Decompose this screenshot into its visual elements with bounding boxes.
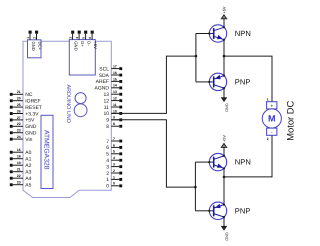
pin 2 (right) xyxy=(106,169,122,177)
svg-text:23: 23 xyxy=(17,181,21,185)
pin RESET (left) xyxy=(10,103,42,111)
svg-text:13: 13 xyxy=(113,90,117,94)
junction dot upper bracket xyxy=(195,55,198,58)
pin GND (USB) xyxy=(69,31,79,51)
pin +3.3V (left) xyxy=(10,109,39,117)
svg-text:6: 6 xyxy=(113,143,115,147)
pin 13 (right) xyxy=(103,90,122,98)
svg-text:17: 17 xyxy=(113,65,117,69)
wire Q1 base stub xyxy=(196,33,210,35)
pin 6 (right) xyxy=(106,143,122,151)
svg-text:A5: A5 xyxy=(25,183,31,189)
svg-text:PNP: PNP xyxy=(235,206,251,215)
svg-text:1: 1 xyxy=(113,175,115,179)
svg-text:12: 12 xyxy=(103,98,109,104)
svg-text:3: 3 xyxy=(113,163,115,167)
svg-text:14: 14 xyxy=(113,84,117,88)
svg-text:+3.3V: +3.3V xyxy=(25,111,39,117)
svg-text:1: 1 xyxy=(267,98,269,102)
wire feed2 pin9 to lower base bracket xyxy=(111,120,195,187)
transistor Q3 (NPN) xyxy=(208,153,227,170)
svg-text:D-: D- xyxy=(87,41,92,46)
svg-text:10: 10 xyxy=(103,111,109,117)
pin 5 (right) xyxy=(106,150,122,158)
pin +5V (USB) xyxy=(88,31,98,49)
wire feed1 pin10 to upper base bracket xyxy=(111,56,196,113)
power terminal GND (GND2) xyxy=(221,217,228,241)
svg-text:8: 8 xyxy=(106,124,109,130)
svg-text:3: 3 xyxy=(69,37,73,39)
svg-text:6: 6 xyxy=(106,145,109,151)
svg-text:RESET: RESET xyxy=(25,105,42,111)
motor M1 bottom terminal xyxy=(267,128,277,135)
svg-text:GND: GND xyxy=(225,232,229,241)
svg-text:ARDUINO UNO: ARDUINO UNO xyxy=(65,85,71,123)
svg-text:2: 2 xyxy=(106,171,109,177)
svg-text:NPN: NPN xyxy=(235,29,251,38)
svg-text:GND: GND xyxy=(25,131,37,137)
wire lower output to motor - xyxy=(224,135,272,177)
svg-text:2: 2 xyxy=(113,169,115,173)
transistor Q1 (NPN) xyxy=(208,25,227,42)
svg-text:15: 15 xyxy=(113,77,117,81)
pin GND (left) xyxy=(10,122,37,130)
pin A2 (left) xyxy=(10,161,32,169)
wire Q2 base stub xyxy=(196,81,210,83)
svg-text:22: 22 xyxy=(17,122,21,126)
pin 12 (right) xyxy=(103,97,122,105)
pin SDA (right) xyxy=(99,71,122,79)
svg-text:1: 1 xyxy=(26,37,30,39)
wire base bracket lower pair xyxy=(194,162,196,211)
svg-text:10: 10 xyxy=(113,109,117,113)
svg-text:2: 2 xyxy=(32,37,36,39)
svg-text:A2: A2 xyxy=(25,163,31,169)
Arduino mounting hole circle 1 xyxy=(75,93,86,104)
svg-text:NPN: NPN xyxy=(235,158,251,167)
svg-text:+5V: +5V xyxy=(25,118,35,124)
pin GND (power jack) xyxy=(26,31,36,51)
svg-text:IOREF: IOREF xyxy=(25,99,40,105)
svg-text:A0: A0 xyxy=(25,150,31,156)
svg-text:5: 5 xyxy=(82,37,86,39)
svg-text:9: 9 xyxy=(106,118,109,124)
svg-text:16: 16 xyxy=(113,71,117,75)
svg-text:SCL: SCL xyxy=(99,66,109,72)
svg-text:19: 19 xyxy=(17,161,21,165)
wire base bracket upper pair xyxy=(195,34,197,82)
svg-text:M: M xyxy=(268,114,276,124)
svg-text:1: 1 xyxy=(106,177,109,183)
pin 8 (right) xyxy=(106,122,122,130)
pin 9 (right) xyxy=(106,116,122,124)
pin GND (left) xyxy=(10,129,37,137)
svg-text:AGND: AGND xyxy=(95,86,110,92)
svg-text:23: 23 xyxy=(17,129,21,133)
svg-text:DC+: DC+ xyxy=(38,42,43,51)
svg-text:A4: A4 xyxy=(25,176,31,182)
svg-text:4: 4 xyxy=(113,156,115,160)
svg-text:GND: GND xyxy=(74,41,79,50)
wire Q1 emitter to Q2 emitter xyxy=(223,40,225,76)
pin 11 (right) xyxy=(104,103,122,111)
svg-text:GND: GND xyxy=(31,42,36,51)
svg-text:PNP: PNP xyxy=(235,77,251,86)
svg-text:3: 3 xyxy=(106,164,109,170)
junction dot lower bracket xyxy=(194,186,197,189)
motor M1 body xyxy=(262,109,281,128)
motor M1 top terminal xyxy=(267,102,277,109)
wire Q3 base stub xyxy=(195,161,209,163)
pin DC+ (power jack) xyxy=(32,31,42,51)
svg-text:0: 0 xyxy=(113,182,115,186)
svg-text:SDA: SDA xyxy=(99,73,110,79)
pin D+ (USB) xyxy=(75,31,85,48)
transistor Q2 (PNP) xyxy=(208,73,227,90)
power terminal +5V (VCC1) xyxy=(221,6,226,27)
Arduino USB connector box xyxy=(69,40,95,75)
svg-text:13: 13 xyxy=(103,92,109,98)
svg-text:11: 11 xyxy=(113,103,117,107)
power terminal +5V (VCC2) xyxy=(221,135,226,156)
svg-text:27: 27 xyxy=(17,116,21,120)
pin A3 (left) xyxy=(10,168,32,176)
svg-text:7: 7 xyxy=(106,139,109,145)
junction dot lower output xyxy=(223,176,226,179)
svg-text:18: 18 xyxy=(17,155,21,159)
svg-text:D+: D+ xyxy=(80,41,85,47)
svg-text:16: 16 xyxy=(17,148,21,152)
svg-text:21: 21 xyxy=(17,168,21,172)
svg-text:5: 5 xyxy=(106,152,109,158)
pin Vin (left) xyxy=(10,135,33,143)
pin A0 (left) xyxy=(10,148,32,156)
pin 1 (right) xyxy=(106,175,122,183)
pin 0 (right) xyxy=(106,182,122,190)
svg-text:4: 4 xyxy=(75,37,79,39)
svg-text:GND: GND xyxy=(225,103,229,112)
svg-text:12: 12 xyxy=(113,97,117,101)
svg-text:7: 7 xyxy=(113,137,115,141)
svg-text:A3: A3 xyxy=(25,170,31,176)
pin SCL (right) xyxy=(99,65,122,73)
svg-text:+5V: +5V xyxy=(93,41,98,49)
svg-text:NC: NC xyxy=(25,92,33,98)
svg-text:20: 20 xyxy=(17,97,21,101)
pin AGND (right) xyxy=(95,84,123,92)
ATMEGA328 IC rectangle xyxy=(41,115,53,188)
svg-text:Vin: Vin xyxy=(25,137,32,143)
pin +5V (left) xyxy=(10,116,35,124)
svg-text:8: 8 xyxy=(113,122,115,126)
pin AREF (right) xyxy=(96,77,123,85)
pin A1 (left) xyxy=(10,155,32,163)
power terminal GND (GND1) xyxy=(221,88,228,112)
svg-text:0: 0 xyxy=(106,184,109,190)
pin 10 (right) xyxy=(103,109,122,117)
pin A5 (left) xyxy=(10,181,32,189)
svg-text:+5V: +5V xyxy=(223,135,227,142)
svg-text:11: 11 xyxy=(104,105,109,111)
svg-text:2: 2 xyxy=(267,137,269,141)
pin D- (USB) xyxy=(82,31,92,47)
wire upper output to motor + xyxy=(224,56,272,102)
pin A4 (left) xyxy=(10,174,32,182)
svg-text:6: 6 xyxy=(88,37,92,39)
wire Q4 base stub xyxy=(195,210,209,212)
svg-text:GND: GND xyxy=(25,124,37,130)
pin NC (left) xyxy=(10,90,33,98)
svg-text:22: 22 xyxy=(17,174,21,178)
Arduino mounting hole circle 2 xyxy=(74,104,87,117)
svg-text:Motor DC: Motor DC xyxy=(284,100,295,140)
svg-text:24: 24 xyxy=(17,135,21,139)
svg-text:4: 4 xyxy=(106,158,109,164)
pin IOREF (left) xyxy=(10,97,41,105)
pin 4 (right) xyxy=(106,156,122,164)
junction dot upper output xyxy=(223,55,226,58)
Arduino power jack connector box xyxy=(28,40,42,58)
svg-text:AREF: AREF xyxy=(96,79,109,85)
svg-text:ATMEGA328: ATMEGA328 xyxy=(42,130,49,170)
svg-text:9: 9 xyxy=(113,116,115,120)
svg-text:A1: A1 xyxy=(25,157,31,163)
svg-text:26: 26 xyxy=(17,109,21,113)
Arduino board U1 outline xyxy=(23,41,111,197)
pin 7 (right) xyxy=(106,137,122,145)
svg-text:21: 21 xyxy=(17,90,21,94)
pin 3 (right) xyxy=(106,163,122,171)
svg-text:+5V: +5V xyxy=(223,6,227,13)
transistor Q4 (PNP) xyxy=(208,202,227,219)
svg-text:5: 5 xyxy=(113,150,115,154)
svg-text:25: 25 xyxy=(17,103,21,107)
wire Q3 emitter to Q4 emitter xyxy=(223,168,225,204)
